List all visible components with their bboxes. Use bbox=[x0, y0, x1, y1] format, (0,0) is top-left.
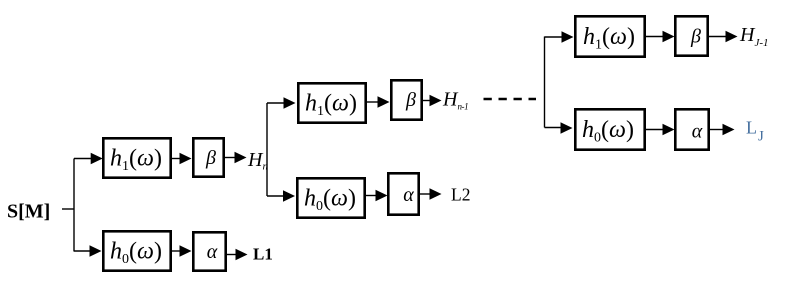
gain alpha stage 2 bbox=[388, 173, 418, 214]
wire alpha to LJ bbox=[710, 129, 724, 131]
wire beta to Hn bbox=[225, 157, 236, 159]
wire stage-3 top branch into h1 bbox=[545, 36, 564, 38]
wire beta to Hn-1 bbox=[423, 100, 431, 102]
filter h0(w) stage 3 bbox=[575, 109, 644, 149]
wire beta to HJ-1 bbox=[709, 36, 727, 38]
wire alpha to L1 bbox=[227, 254, 236, 256]
wire stage-1 branch vertical bbox=[73, 159, 75, 252]
svg-text:β: β bbox=[690, 26, 701, 48]
wire h0 to alpha stage 3 bbox=[646, 129, 664, 131]
wire stage-2 top branch into h1 bbox=[267, 102, 285, 104]
gain alpha stage 1 bbox=[193, 232, 225, 270]
svg-text:h0(ω): h0(ω) bbox=[582, 117, 634, 146]
gain beta stage 3 bbox=[675, 16, 707, 55]
svg-text:L1: L1 bbox=[253, 245, 273, 264]
svg-text:h0(ω): h0(ω) bbox=[304, 186, 356, 215]
svg-text:α: α bbox=[207, 241, 218, 263]
wire dashed continuation bbox=[484, 98, 537, 101]
filter h0(w) stage 1 bbox=[103, 231, 170, 270]
wire stage-1 bottom branch into h0 bbox=[74, 250, 91, 252]
svg-text:L2: L2 bbox=[451, 185, 470, 205]
svg-text:β: β bbox=[405, 89, 416, 111]
wire stage-1 top branch into h1 bbox=[74, 158, 92, 160]
gain beta stage 2 bbox=[391, 80, 421, 119]
wire stage-2 bottom branch into h0 bbox=[267, 195, 285, 197]
svg-text:h1(ω): h1(ω) bbox=[305, 91, 357, 120]
svg-text:h1(ω): h1(ω) bbox=[110, 146, 162, 175]
wire h0 to alpha stage 2 bbox=[366, 195, 377, 197]
svg-text:h1(ω): h1(ω) bbox=[583, 24, 635, 53]
gain alpha stage 3 bbox=[675, 109, 708, 149]
wire h1 to beta stage 1 bbox=[172, 158, 181, 160]
wire alpha to L2 bbox=[420, 193, 431, 195]
wire stage-3 bottom branch into h0 bbox=[545, 127, 563, 129]
wire h1 to beta stage 2 bbox=[367, 101, 379, 103]
wire h1 to beta stage 3 bbox=[646, 36, 664, 38]
wire h0 to alpha stage 1 bbox=[172, 250, 181, 252]
filter h1(w) stage 1 bbox=[103, 138, 170, 177]
svg-text:S[M]: S[M] bbox=[7, 201, 50, 223]
svg-text:α: α bbox=[403, 184, 414, 206]
filter h1(w) stage 3 bbox=[575, 16, 644, 56]
filter h0(w) stage 2 bbox=[297, 178, 364, 217]
wire stage-3 branch vertical bbox=[544, 37, 546, 128]
svg-text:h0(ω): h0(ω) bbox=[110, 239, 162, 268]
svg-text:α: α bbox=[692, 121, 703, 143]
wire stub from S[M] bbox=[62, 208, 74, 210]
gain beta stage 1 bbox=[193, 138, 223, 176]
filter h1(w) stage 2 bbox=[298, 83, 365, 122]
wire stage-2 branch vertical bbox=[266, 103, 268, 196]
svg-text:β: β bbox=[205, 147, 216, 169]
